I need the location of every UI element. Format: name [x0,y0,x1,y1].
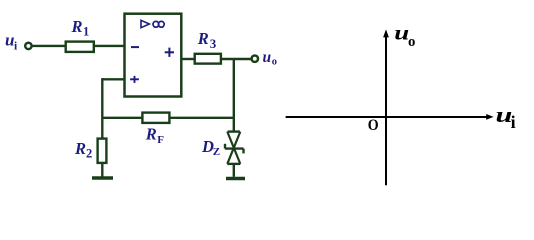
node ui input label [5,31,18,53]
svg-text:R: R [145,125,157,144]
svg-text:Z: Z [213,146,220,158]
svg-text:2: 2 [86,147,92,161]
node uo output label [263,49,278,68]
svg-text:F: F [157,134,164,146]
svg-text:u: u [394,22,409,45]
ground under R2 [92,176,113,179]
svg-text:R: R [197,29,209,48]
label RF [145,125,165,147]
label R1 [71,17,90,39]
resistor R2 [98,139,107,163]
op-amp inverting input minus [131,46,139,48]
ground under DZ [226,177,245,180]
wire op-amp output to R3 [181,58,194,60]
svg-text:i: i [511,112,516,132]
svg-text:3: 3 [210,36,217,51]
op-amp infinity symbol [153,21,164,27]
svg-text:R: R [71,17,83,36]
zener diode DZ [225,132,244,177]
wire R2 to ground [101,163,103,177]
wire R1 to op-amp [94,45,125,47]
wire op-amp plus input to left vertical [102,78,124,80]
resistor R1 [66,42,94,52]
label R2 [74,139,92,161]
label DZ [201,137,220,158]
svg-text:o: o [408,34,415,50]
graph axis label uo [394,22,415,50]
svg-text:i: i [14,41,18,53]
label R3 [197,29,217,51]
wire left vertical down to R2 [101,78,103,139]
graph horizontal axis ui [286,116,488,118]
op-amp U1 body [125,14,182,97]
op-amp output plus [165,48,174,57]
wire output node down to zener [233,59,235,132]
svg-text:o: o [272,57,277,68]
resistor R3 [195,54,221,64]
wire input to R1 [32,45,66,47]
wire R3 to output terminal [221,58,252,60]
op-amp non-inverting input plus [130,76,139,83]
svg-text:R: R [74,139,86,158]
graph axis label ui [496,102,516,132]
svg-text:u: u [263,49,272,66]
output terminal [252,56,258,62]
svg-text:1: 1 [83,25,89,39]
wire feedback horizontal [102,117,234,119]
op-amp gain triangle symbol [141,20,149,27]
resistor RF [142,113,169,123]
input terminal [25,43,31,49]
svg-text:O: O [368,116,379,134]
graph vertical axis uo [385,33,387,185]
